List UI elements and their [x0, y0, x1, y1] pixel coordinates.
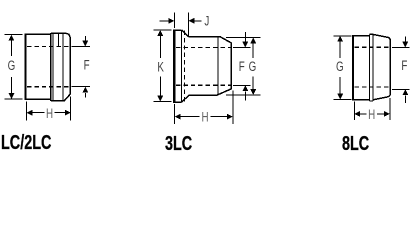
svg-text:H: H [46, 105, 53, 121]
sleeve 3LC flange outline [173, 30, 181, 102]
dimension F (8LC) extension lines [392, 48, 410, 90]
sleeve 8LC hidden bore line (bottom) [355, 86, 391, 88]
dimension J (3LC) extension lines [174, 12, 188, 36]
svg-text:G: G [8, 57, 16, 73]
sleeve 8LC body outline [352, 36, 370, 100]
dimension K (3LC) extension lines [154, 30, 172, 101]
sleeve 3LC hidden vertical line in flange [183, 31, 185, 102]
dimension G (8LC) extension lines [334, 36, 352, 100]
svg-text:G: G [249, 58, 257, 74]
dimension H (3LC) extension lines [175, 91, 233, 125]
svg-text:H: H [368, 106, 375, 122]
caption LC/2LC [1, 132, 51, 155]
sleeve 8LC tapered collar outline [373, 34, 390, 99]
svg-text:F: F [401, 57, 407, 73]
dimension F (LC/2LC) extension lines [72, 47, 91, 87]
svg-text:G: G [336, 58, 344, 74]
dimension K (3LC) dimension line and arrows [157, 30, 163, 101]
sleeve LC/2LC inner vertical line 1 [57, 33, 59, 47]
dimension F (8LC) dimension line and arrows (outside) [402, 37, 408, 103]
sleeve 8LC hidden bore line (top) [355, 46, 391, 48]
caption 3LC [165, 133, 192, 156]
sleeve LC/2LC body outline [25, 34, 51, 99]
sleeve 3LC inner vertical line [217, 37, 219, 96]
sleeve LC/2LC step edge (double line) [51, 33, 53, 101]
dimension H (8LC) extension lines [354, 98, 390, 120]
svg-text:J: J [204, 13, 209, 29]
dimension H (8LC) dimension line and arrows [354, 111, 390, 117]
caption 8LC [342, 133, 369, 156]
dimension G (3LC) extension lines [226, 37, 261, 95]
dimension G (LC/2LC) extension lines [5, 35, 23, 99]
sleeve LC/2LC collar outline with beveled nose [51, 33, 70, 101]
sleeve 3LC hidden bore line (bottom) [176, 84, 231, 86]
dimension H (LC/2LC) dimension line and arrows [26, 110, 70, 116]
sleeve 3LC hidden bore line (top) [176, 46, 231, 48]
svg-text:H: H [201, 109, 208, 125]
dimension F (LC/2LC) dimension line and arrows [82, 36, 88, 98]
dimension J (3LC) dimension line and arrows (outside) [160, 18, 202, 24]
svg-text:K: K [157, 59, 164, 75]
sleeve 3LC body outline with beveled nose [189, 37, 231, 96]
sleeve 8LC step edge (double line) [369, 34, 373, 101]
dimension F (3LC) extension lines [233, 47, 251, 85]
svg-text:F: F [239, 58, 245, 74]
dimension H (LC/2LC) extension lines [26, 97, 70, 121]
sleeve LC/2LC hidden bore line (bottom) [27, 86, 71, 88]
dimension H (3LC) dimension line and arrows [175, 114, 233, 120]
dimension G (3LC) dimension line and arrows [250, 37, 256, 95]
sleeve LC/2LC hidden bore line (top) [27, 46, 71, 48]
dimension G (LC/2LC) dimension line and arrows [8, 35, 14, 99]
dimension G (8LC) dimension line and arrows [337, 36, 343, 100]
dimension F (3LC) dimension line and arrows (outside) [242, 32, 248, 101]
sleeve 3LC taper from flange to body [182, 30, 189, 102]
svg-text:F: F [84, 57, 90, 73]
sleeve LC/2LC inner vertical line 2 [62, 33, 64, 100]
